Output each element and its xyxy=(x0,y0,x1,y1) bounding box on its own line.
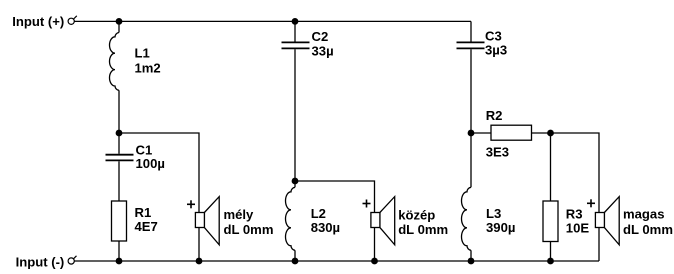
wire L3 to bottom rail xyxy=(470,250,472,261)
svg-text:L1: L1 xyxy=(135,46,150,61)
node L3 bottom xyxy=(468,258,475,265)
wire R1 to bottom rail xyxy=(118,241,120,261)
wire node D to tweeter xyxy=(551,133,600,213)
Input (+) terminal xyxy=(68,16,77,25)
node woofer bottom xyxy=(196,258,203,265)
node top of L1 xyxy=(116,18,123,25)
wire node D to R3 xyxy=(550,133,552,201)
svg-text:L2: L2 xyxy=(311,206,326,221)
svg-text:közép: közép xyxy=(398,208,435,223)
resistor R3 xyxy=(543,201,558,242)
svg-text:1m2: 1m2 xyxy=(135,61,161,76)
wire R2 to node D xyxy=(532,132,551,134)
wire C2 from top rail xyxy=(294,21,296,41)
svg-text:mély: mély xyxy=(224,207,255,222)
svg-text:C2: C2 xyxy=(312,29,329,44)
wire C2 to node B xyxy=(294,49,296,181)
svg-text:830µ: 830µ xyxy=(311,220,340,235)
node B (C2 / L2 / mid branch) xyxy=(292,178,299,185)
node R3 bottom xyxy=(547,258,554,265)
wire node B to L2 xyxy=(294,181,296,187)
node L2 bottom xyxy=(292,258,299,265)
node R1 bottom xyxy=(116,258,123,265)
capacitor C1 xyxy=(106,155,134,161)
node C (C3 / R2 / L3) xyxy=(468,130,475,137)
svg-text:33µ: 33µ xyxy=(312,44,334,59)
speaker közép (midrange) xyxy=(363,197,395,261)
wire C3 to node C xyxy=(470,49,472,133)
svg-text:dL 0mm: dL 0mm xyxy=(224,222,274,237)
speaker magas (tweeter) xyxy=(587,197,619,261)
wire L2 to bottom rail xyxy=(294,250,296,261)
svg-text:100µ: 100µ xyxy=(136,156,165,171)
svg-text:Input (-): Input (-) xyxy=(16,254,65,269)
node A (L1 / C1 / woofer branch) xyxy=(116,130,123,137)
svg-text:R1: R1 xyxy=(135,205,152,220)
svg-text:L3: L3 xyxy=(486,206,501,221)
svg-text:10E: 10E xyxy=(566,221,590,236)
svg-text:R3: R3 xyxy=(566,206,583,221)
resistor R2 xyxy=(491,125,532,140)
Input (-) terminal xyxy=(68,256,76,264)
node top of C2 xyxy=(292,18,299,25)
wire top rail corner to C3 xyxy=(470,21,472,41)
node mid speaker bottom xyxy=(371,258,378,265)
wire node C to L3 xyxy=(470,133,472,187)
svg-text:dL 0mm: dL 0mm xyxy=(623,222,673,237)
wire from L1 to node A xyxy=(118,90,120,133)
wire bottom rail xyxy=(75,260,600,262)
wire top rail xyxy=(75,20,472,22)
svg-text:R2: R2 xyxy=(486,108,503,123)
svg-text:Input (+): Input (+) xyxy=(12,14,64,29)
wire node C to R2 xyxy=(471,132,491,134)
wire node A to woofer xyxy=(119,133,199,213)
wire C1 to R1 xyxy=(118,161,120,201)
svg-text:magas: magas xyxy=(623,207,665,222)
capacitor C2 xyxy=(282,42,310,48)
svg-text:3E3: 3E3 xyxy=(486,145,509,160)
capacitor C3 xyxy=(457,42,485,48)
svg-text:C3: C3 xyxy=(485,29,502,44)
inductor L3 xyxy=(462,187,471,250)
wire R3 to bottom rail xyxy=(550,242,552,262)
node D (R2 / R3 / tweeter branch) xyxy=(547,130,554,137)
inductor L1 xyxy=(110,33,119,91)
wire from top rail to L1 xyxy=(118,21,120,32)
svg-text:3µ3: 3µ3 xyxy=(485,43,507,58)
wire node A to C1 xyxy=(118,133,120,154)
resistor R1 xyxy=(112,201,127,241)
inductor L2 xyxy=(286,187,296,250)
speaker mély (woofer) xyxy=(187,197,219,261)
svg-text:4E7: 4E7 xyxy=(135,219,158,234)
svg-text:dL 0mm: dL 0mm xyxy=(398,222,448,237)
wire node B to mid speaker xyxy=(295,181,375,213)
svg-text:390µ: 390µ xyxy=(486,220,515,235)
